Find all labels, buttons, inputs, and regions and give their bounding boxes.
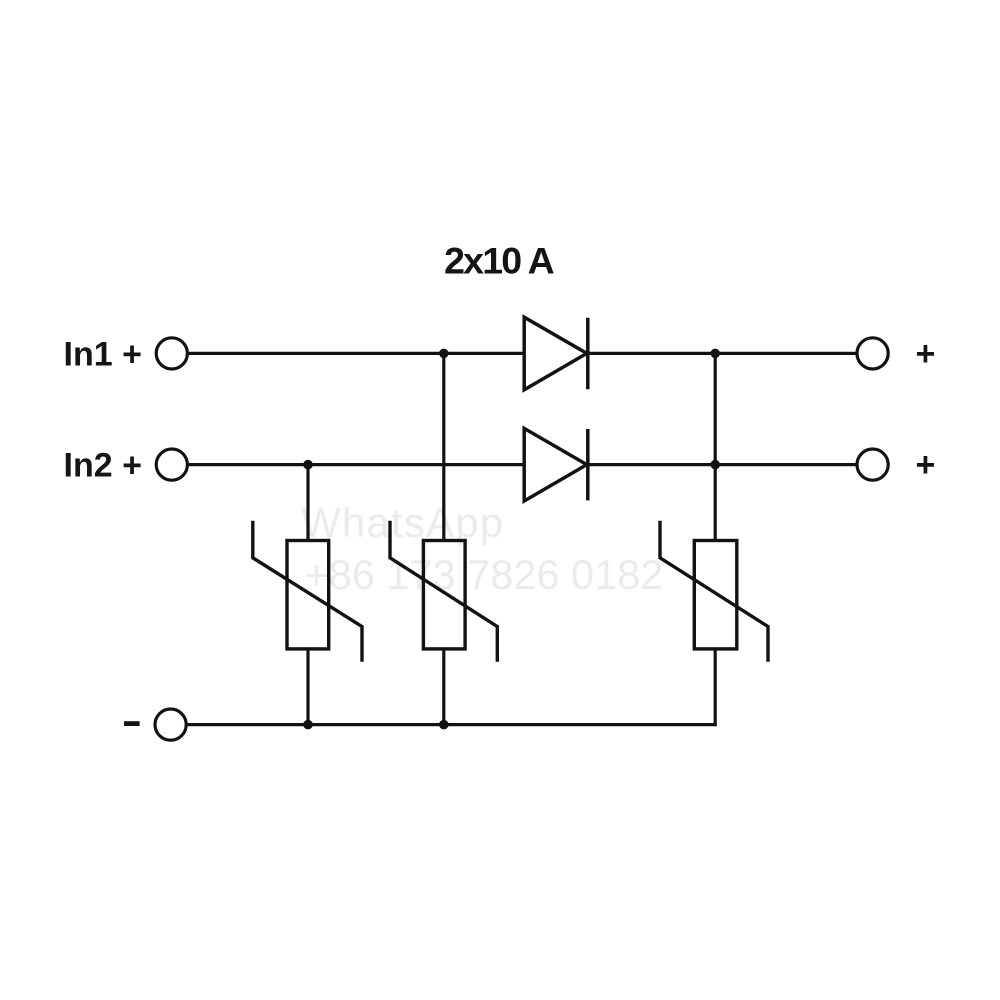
wire D1 cathode to output terminal 1 [588, 352, 857, 355]
terminal circle minus [155, 709, 186, 740]
diode D2 triangle (anode) [524, 428, 587, 501]
varistor R3 body rect [694, 541, 737, 649]
junction dot output line 1 / vertical tie branch [710, 349, 720, 359]
junction dot In1 / varistor R2 branch [439, 349, 449, 359]
svg-text:WhatsApp: WhatsApp [301, 499, 504, 546]
terminal circle In2 [156, 449, 187, 480]
junction dot output line 2 / vertical tie branch [710, 460, 720, 470]
junction dot In2 / varistor R1 branch [303, 460, 313, 470]
wire D2 cathode to output terminal 2 [588, 463, 857, 466]
svg-text:2x10 A: 2x10 A [444, 240, 554, 282]
terminal circle output 2 [857, 449, 888, 480]
wire varistor R2 bottom to minus bus [442, 649, 445, 725]
junction dot bus / varistor R1 [303, 720, 313, 730]
svg-text:In2 +: In2 + [64, 447, 142, 485]
terminal circle output 1 [857, 338, 888, 369]
wire varistor R1 bottom to minus bus [306, 649, 309, 725]
svg-text:+: + [916, 446, 936, 484]
wire varistor R3 bottom to minus bus corner [714, 649, 717, 726]
varistor R1 diagonal stroke with end hooks [253, 521, 362, 662]
diode D2 cathode bar [586, 429, 590, 500]
wire vertical In2 line down to varistor R1 [306, 465, 309, 541]
junction dot bus / varistor R2 [439, 720, 449, 730]
minus bus horizontal wire [186, 723, 717, 726]
varistor R3 diagonal stroke with end hooks [660, 521, 768, 662]
wire In1 terminal to diode D1 anode [187, 352, 524, 355]
svg-text:+86 173 7826 0182: +86 173 7826 0182 [305, 551, 664, 598]
label minus sign [124, 721, 140, 726]
diode D1 cathode bar [586, 318, 590, 389]
varistor R2 diagonal stroke with end hooks [390, 521, 497, 662]
wire In2 terminal to diode D2 anode [187, 463, 524, 466]
svg-text:+: + [916, 335, 936, 373]
diode D1 triangle (anode) [524, 317, 587, 390]
svg-text:In1 +: In1 + [64, 336, 142, 374]
varistor R1 body rect [287, 541, 329, 649]
varistor R2 body rect [423, 541, 465, 649]
wire vertical In1 line down to varistor R2 [442, 353, 445, 540]
wire vertical output tie line down to varistor R3 [714, 353, 717, 540]
terminal circle In1 [156, 338, 187, 369]
